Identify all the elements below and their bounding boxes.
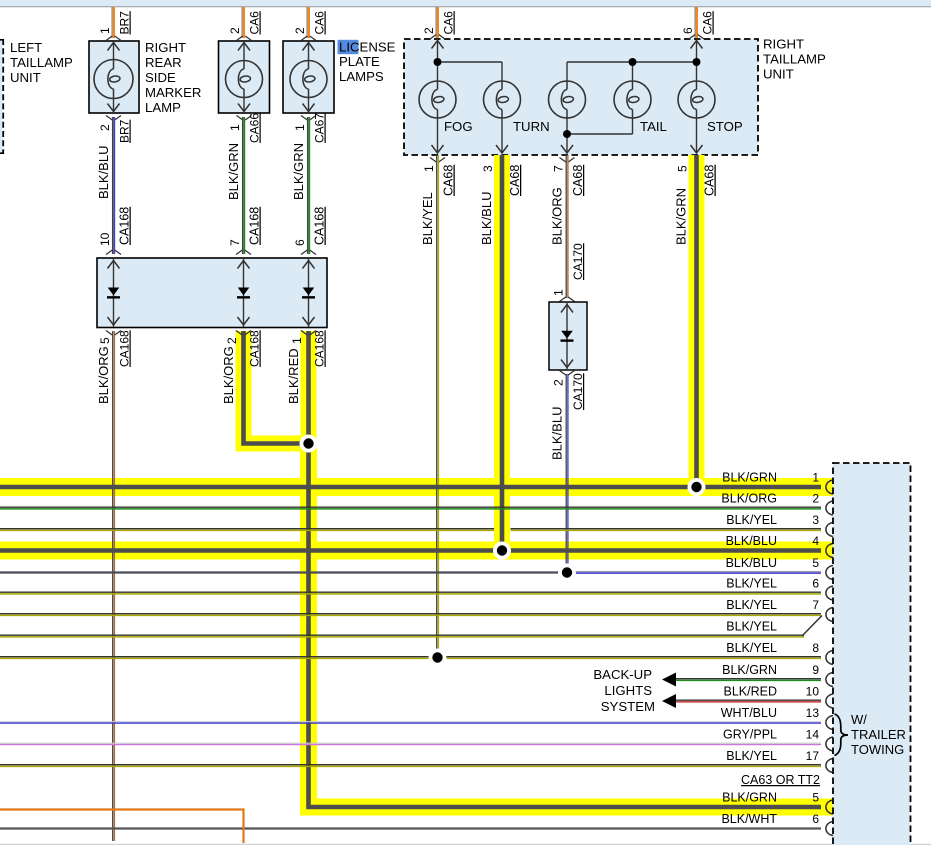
label WHT/BLU: [721, 706, 777, 720]
internal bus fog-turn: [438, 61, 503, 63]
svg-text:BLK/GRN: BLK/GRN: [226, 143, 241, 200]
svg-text:CA67: CA67: [313, 113, 327, 143]
svg-text:CA6: CA6: [248, 11, 262, 35]
pin 9 label: [812, 663, 819, 677]
pin 5 label: [812, 556, 819, 570]
junction dot bulb3 bottom: [563, 130, 571, 138]
connector pin mark: [826, 523, 833, 537]
pin 6 label: [812, 577, 819, 591]
connector pin mark: [826, 694, 833, 708]
wire orange return at bottom left: [0, 810, 244, 844]
pin 3 label: [812, 513, 819, 527]
pin 7 label: [552, 165, 566, 172]
pin 4 label: [812, 534, 819, 548]
internal link bulb3-tail bottom: [567, 133, 633, 135]
wire BLK/BLU from CA170 pin 2 down to row 5: [566, 374, 568, 573]
svg-text:LIGHTS: LIGHTS: [604, 683, 652, 698]
highlighted wire BLK/RED from CA168 pin 1 down to junction: [301, 331, 317, 444]
net label BR7: [118, 119, 132, 143]
svg-text:CA170: CA170: [571, 373, 585, 410]
svg-text:CA6: CA6: [701, 11, 715, 35]
left taillamp unit box fragment: [0, 39, 3, 154]
svg-text:2: 2: [552, 379, 566, 386]
svg-text:BLK/ORG: BLK/ORG: [96, 346, 111, 404]
svg-text:TRAILER: TRAILER: [851, 727, 906, 742]
svg-text:3: 3: [812, 513, 819, 527]
svg-text:STOP: STOP: [707, 119, 743, 134]
pin 2 label: [225, 337, 239, 344]
pin 2 label: [293, 27, 307, 34]
bulb TAIL: [614, 62, 667, 134]
svg-text:CA168: CA168: [248, 330, 262, 367]
label BLK/GRN: [722, 663, 777, 677]
svg-text:1: 1: [228, 124, 242, 131]
svg-text:TAILLAMP: TAILLAMP: [763, 52, 826, 67]
highlight band row 1 BLK/GRN: [0, 478, 833, 496]
wire row BLK/YEL 8 y=657.5: [0, 657, 821, 659]
top power strip (bottom edge of off-page box): [0, 0, 931, 7]
highlighted trunk wire down then right to connector row 5 (BLK/GRN): [309, 444, 834, 808]
wire BLK/ORG from CA168 pin 5 down across all rows: [113, 331, 115, 841]
wire CA6 power stub at x=243.5: [242, 7, 244, 38]
highlighted wire BLK/ORG from CA168 pin 2, elbow right: [244, 331, 308, 444]
svg-text:TAILLAMP: TAILLAMP: [10, 55, 73, 70]
wire CA6 power stub at x=308.5: [307, 7, 309, 38]
connector pin mark: [826, 586, 833, 600]
net label CA68: [571, 165, 585, 196]
label BACK-UP LIGHTS SYSTEM: [593, 667, 655, 714]
label LICENSE PLATE LAMPS with search highlight on LIC: [338, 40, 396, 85]
svg-text:SIDE: SIDE: [145, 70, 176, 85]
junction dot at (567,572.5): [558, 564, 576, 582]
svg-text:13: 13: [806, 706, 820, 720]
pin 1 label: [293, 124, 307, 131]
svg-text:W/: W/: [851, 712, 867, 727]
svg-text:BLK/RED: BLK/RED: [286, 348, 301, 404]
pin 2 label: [552, 379, 566, 386]
svg-text:CA170: CA170: [571, 243, 585, 280]
svg-text:CA66: CA66: [248, 113, 262, 143]
wire row BLK/YEL 7 y=614.5: [0, 614, 821, 616]
svg-text:5: 5: [812, 556, 819, 570]
svg-text:1: 1: [422, 165, 436, 172]
svg-text:8: 8: [812, 641, 819, 655]
svg-text:7: 7: [552, 165, 566, 172]
label BLK/ORG: [721, 492, 777, 506]
svg-text:REAR: REAR: [145, 55, 182, 70]
wire colour label BLK/ORG: [550, 187, 565, 245]
wire colour label BLK/GRN: [291, 143, 306, 200]
lamp LICENSE PLATE LAMP 2: [283, 36, 334, 120]
connector pin mark: [826, 759, 833, 773]
label BLK/YEL: [726, 641, 777, 655]
svg-text:4: 4: [812, 534, 819, 548]
wire colour label BLK/BLU: [96, 146, 111, 199]
svg-text:LICENSE: LICENSE: [339, 40, 396, 55]
svg-text:5: 5: [676, 165, 690, 172]
svg-text:BLK/BLU: BLK/BLU: [726, 556, 777, 570]
wire row BLK/ORG 2 y=508: [0, 507, 821, 509]
bulb TURN: [484, 62, 550, 153]
wire row BLK/BLU 4 y=550.5: [0, 548, 821, 553]
net label CA168: [313, 207, 327, 245]
svg-text:RIGHT: RIGHT: [763, 37, 804, 52]
pin 1 label: [812, 471, 819, 485]
svg-text:CA68: CA68: [508, 165, 522, 196]
svg-text:CA168: CA168: [313, 330, 327, 367]
pin 2 label: [422, 27, 436, 34]
highlighted wire BLK/BLU from TURN pin 3 to row 4: [494, 155, 510, 551]
label CA63 OR TT2: [741, 773, 820, 787]
net label CA168: [118, 207, 132, 245]
wire BLK/GRN from license lamp 2 pin 1 to CA168 pin 6: [308, 117, 310, 254]
wire row BLK/WHT 6 y=828.5: [0, 827, 821, 829]
connector pin mark: [826, 544, 833, 558]
svg-text:BLK/ORG: BLK/ORG: [721, 492, 777, 506]
svg-text:BLK/YEL: BLK/YEL: [726, 620, 777, 634]
net label CA68: [508, 165, 522, 196]
pin 7 label: [228, 239, 242, 246]
svg-text:BLK/YEL: BLK/YEL: [726, 577, 777, 591]
svg-text:LEFT: LEFT: [10, 40, 42, 55]
svg-text:BLK/ORG: BLK/ORG: [550, 187, 565, 245]
wire row BLK/BLU 5 y=572.5: [0, 572, 821, 573]
svg-text:6: 6: [293, 239, 307, 246]
svg-text:FOG: FOG: [444, 119, 473, 134]
svg-text:BLK/YEL: BLK/YEL: [726, 641, 777, 655]
label BLK/GRN: [722, 471, 777, 485]
svg-text:2: 2: [98, 124, 112, 131]
connector pin mark: [826, 737, 833, 751]
pin 2 label: [228, 27, 242, 34]
svg-text:3: 3: [481, 165, 495, 172]
svg-text:BLK/YEL: BLK/YEL: [726, 598, 777, 612]
label BLK/WHT: [721, 812, 777, 826]
wire BLK/YEL from FOG pin 1 down to row 8: [437, 155, 439, 658]
wire CA6 power stub at x=437.5: [436, 7, 438, 38]
svg-text:CA63 OR TT2: CA63 OR TT2: [741, 773, 820, 787]
label BLK/YEL: [726, 620, 777, 634]
junction dot stop top: [693, 58, 701, 66]
net label CA6: [442, 11, 456, 35]
svg-text:TOWING: TOWING: [851, 742, 904, 757]
svg-text:5: 5: [98, 337, 112, 344]
pin 1 label: [422, 165, 436, 172]
svg-text:BLK/BLU: BLK/BLU: [96, 146, 111, 199]
connector pin mark: [826, 480, 833, 494]
svg-text:BLK/YEL: BLK/YEL: [420, 192, 435, 245]
wire colour label BLK/ORG: [96, 346, 111, 404]
pin 10 label: [806, 685, 820, 699]
svg-text:7: 7: [228, 239, 242, 246]
svg-text:BR7: BR7: [118, 11, 132, 35]
pin 10 label: [98, 232, 112, 246]
svg-text:CA168: CA168: [118, 330, 132, 367]
svg-text:6: 6: [681, 27, 695, 34]
svg-text:UNIT: UNIT: [763, 67, 794, 82]
junction dot at (437.5,657.5): [429, 649, 447, 667]
connector pin mark: [826, 651, 833, 665]
wire colour label BLK/YEL: [420, 192, 435, 245]
svg-text:1: 1: [293, 124, 307, 131]
label BLK/BLU: [726, 534, 777, 548]
svg-text:1: 1: [812, 471, 819, 485]
svg-text:BLK/RED: BLK/RED: [724, 685, 778, 699]
wire row BLK/YEL 17 y=765.5: [0, 765, 821, 767]
svg-text:6: 6: [812, 577, 819, 591]
connector pin mark: [826, 716, 833, 730]
junction dot fog top: [434, 58, 442, 66]
lamp LICENSE PLATE LAMP 1: [219, 36, 270, 120]
svg-text:6: 6: [812, 812, 819, 826]
wire BLK/ORG from bulb3 pin 7 down to diode CA170: [566, 155, 568, 298]
label BLK/GRN 5 for trunk row: [722, 791, 819, 805]
pin 3 label: [481, 165, 495, 172]
wire row BLK/YEL 6 y=593: [0, 592, 821, 594]
wire BLK/BLU from marker lamp pin 2 to CA168 pin 10: [113, 117, 115, 254]
label BLK/YEL: [726, 749, 777, 763]
svg-text:BLK/GRN: BLK/GRN: [722, 663, 777, 677]
svg-text:2: 2: [812, 492, 819, 506]
svg-text:MARKER: MARKER: [145, 85, 201, 100]
wire row BLK/GRN 9 y=679.5: [676, 679, 821, 681]
pin marks under right taillamp unit: [430, 158, 704, 163]
pin 5 label: [676, 165, 690, 172]
connector pin mark row5: [826, 800, 833, 814]
wire row WHT/BLU 13 y=722.5: [0, 722, 821, 723]
label BLK/RED: [724, 685, 778, 699]
junction dot at (502,550.5): [493, 542, 511, 560]
net label CA68: [703, 165, 717, 196]
svg-text:2: 2: [228, 27, 242, 34]
pin 6 label: [681, 27, 695, 34]
pin 1 label: [290, 337, 304, 344]
svg-text:2: 2: [422, 27, 436, 34]
pin 1 label: [228, 124, 242, 131]
highlighted wire BLK/GRN from STOP pin 5 to row 1: [689, 155, 705, 487]
svg-text:BLK/ORG: BLK/ORG: [221, 346, 236, 404]
pin 6 label: [293, 239, 307, 246]
svg-text:CA6: CA6: [442, 11, 456, 35]
label BLK/YEL: [726, 577, 777, 591]
svg-text:BLK/YEL: BLK/YEL: [726, 513, 777, 527]
svg-text:BLK/WHT: BLK/WHT: [721, 812, 777, 826]
svg-text:LAMP: LAMP: [145, 100, 181, 115]
svg-text:10: 10: [98, 232, 112, 246]
diagonal join of unnumbered BLK/YEL row into row 7 connector entry: [802, 616, 822, 637]
svg-text:BLK/BLU: BLK/BLU: [479, 192, 494, 245]
svg-text:GRY/PPL: GRY/PPL: [723, 728, 777, 742]
svg-text:BACK-UP: BACK-UP: [593, 667, 652, 682]
svg-text:TAIL: TAIL: [640, 119, 667, 134]
pin 6 label: [812, 812, 819, 826]
wire colour label BLK/GRN: [674, 188, 689, 245]
pin 17 label: [806, 749, 820, 763]
net label CA168: [248, 330, 262, 367]
svg-text:1: 1: [98, 27, 112, 34]
svg-text:2: 2: [225, 337, 239, 344]
label RIGHT REAR SIDE MARKER LAMP: [145, 40, 201, 115]
internal bus bulb3-tail-stop: [567, 61, 697, 63]
label BLK/YEL: [726, 598, 777, 612]
faint page edge line at bottom: [0, 843, 931, 845]
svg-text:BLK/BLU: BLK/BLU: [550, 407, 565, 460]
connector pin mark: [826, 822, 833, 836]
label GRY/PPL: [723, 728, 777, 742]
wire CA6 power stub at x=696.5: [695, 7, 697, 38]
svg-text:5: 5: [812, 791, 819, 805]
connector box W/ TRAILER TOWING: [833, 463, 911, 845]
connector pin mark: [826, 673, 833, 687]
svg-text:CA168: CA168: [313, 207, 327, 245]
bulb STOP: [678, 39, 743, 153]
wire row BLK/RED 10 y=701: [676, 700, 821, 702]
label W/ TRAILER TOWING: [835, 712, 906, 757]
bulb FOG: [419, 39, 473, 153]
svg-text:WHT/BLU: WHT/BLU: [721, 706, 777, 720]
pin 1 label: [552, 289, 566, 296]
pin 8 label: [812, 641, 819, 655]
junction dot at (696.5,487): [688, 478, 706, 496]
svg-text:BLK/GRN: BLK/GRN: [722, 791, 777, 805]
pin 13 label: [806, 706, 820, 720]
svg-text:BLK/GRN: BLK/GRN: [674, 188, 689, 245]
svg-text:9: 9: [812, 663, 819, 677]
svg-text:LAMPS: LAMPS: [339, 69, 384, 84]
svg-text:UNIT: UNIT: [10, 70, 41, 85]
svg-text:CA68: CA68: [703, 165, 717, 196]
wire row GRY/PPL 14 y=744: [0, 743, 821, 744]
arrow to BLK/GRN 9 row: [662, 673, 676, 687]
svg-text:CA68: CA68: [442, 165, 456, 196]
svg-text:1: 1: [552, 289, 566, 296]
connector pin mark: [826, 501, 833, 515]
wire colour label BLK/GRN: [226, 143, 241, 200]
pin 7 label: [812, 598, 819, 612]
svg-text:CA168: CA168: [118, 207, 132, 245]
pin 2 label: [812, 492, 819, 506]
svg-text:BLK/GRN: BLK/GRN: [722, 471, 777, 485]
svg-text:BLK/BLU: BLK/BLU: [726, 534, 777, 548]
net label CA67: [313, 113, 327, 143]
net label CA6: [313, 11, 327, 35]
right taillamp unit box: [404, 39, 758, 155]
arrow to BLK/RED 10 row: [662, 694, 676, 708]
net label CA168: [313, 330, 327, 367]
pin 14 label: [806, 728, 820, 742]
bulb 3 (tail/stop filament): [549, 62, 586, 153]
connector pin mark: [826, 566, 833, 580]
label LEFT TAILLAMP UNIT: [10, 40, 73, 85]
svg-text:17: 17: [806, 749, 820, 763]
svg-text:CA6: CA6: [313, 11, 327, 35]
label BLK/BLU: [726, 556, 777, 570]
diode box CA168: [97, 258, 327, 328]
net label CA170: [571, 243, 585, 280]
svg-text:1: 1: [290, 337, 304, 344]
pin marks at taillamp unit top entries: [430, 35, 704, 40]
wire colour label BLK/RED: [286, 348, 301, 404]
highlight band row 4 BLK/BLU: [0, 542, 833, 560]
net label CA68: [442, 165, 456, 196]
wire row BLK/YEL (unnumbered) y=636: [0, 635, 804, 637]
net label BR7: [118, 11, 132, 35]
connector pin mark: [826, 608, 833, 622]
svg-text:CA68: CA68: [571, 165, 585, 196]
svg-text:14: 14: [806, 728, 820, 742]
net label CA6: [248, 11, 262, 35]
net label CA168: [118, 330, 132, 367]
pin 2 label: [98, 124, 112, 131]
junction dot at (308.5,443.5): [300, 435, 318, 453]
svg-text:BLK/GRN: BLK/GRN: [291, 143, 306, 200]
label RIGHT TAILLAMP UNIT: [763, 37, 826, 82]
svg-text:TURN: TURN: [513, 119, 550, 134]
net label CA6: [701, 11, 715, 35]
svg-text:BLK/YEL: BLK/YEL: [726, 749, 777, 763]
pin 5 label: [98, 337, 112, 344]
wire colour label BLK/ORG: [221, 346, 236, 404]
label BLK/YEL: [726, 513, 777, 527]
wire row BLK/GRN 1 y=487: [0, 485, 821, 490]
wire colour label BLK/BLU: [479, 192, 494, 245]
wire BR7 power stub at x=113.5: [112, 7, 114, 38]
net label CA170: [571, 373, 585, 410]
svg-text:CA168: CA168: [248, 207, 262, 245]
svg-text:PLATE: PLATE: [339, 54, 380, 69]
svg-text:BR7: BR7: [118, 119, 132, 143]
wire row BLK/YEL 3 y=529.5: [0, 529, 821, 531]
svg-text:SYSTEM: SYSTEM: [601, 699, 655, 714]
wire BLK/GRN from license lamp 1 pin 1 to CA168 pin 7: [243, 117, 245, 254]
diode box CA170: [549, 302, 587, 370]
svg-text:RIGHT: RIGHT: [145, 40, 186, 55]
net label CA66: [248, 113, 262, 143]
pin 1 label: [98, 27, 112, 34]
svg-text:10: 10: [806, 685, 820, 699]
svg-text:2: 2: [293, 27, 307, 34]
wire colour label BLK/BLU: [550, 407, 565, 460]
junction dot tail top: [629, 58, 637, 66]
lamp RIGHT REAR SIDE MARKER LAMP: [89, 36, 139, 120]
net label CA168: [248, 207, 262, 245]
svg-text:7: 7: [812, 598, 819, 612]
